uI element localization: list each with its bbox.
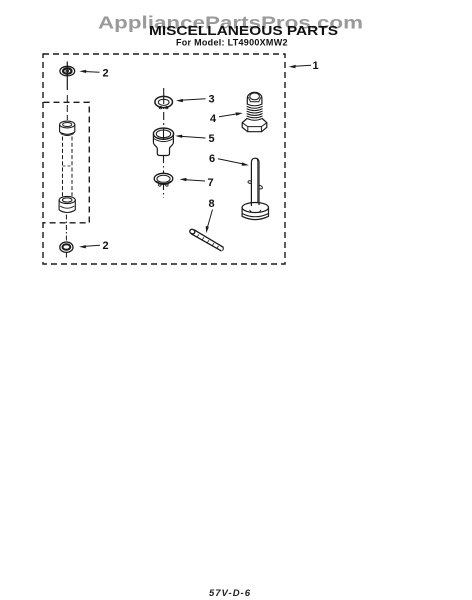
svg-text:3: 3 <box>208 93 214 105</box>
svg-text:5: 5 <box>208 133 214 145</box>
svg-text:7: 7 <box>207 177 213 189</box>
svg-text:6: 6 <box>209 153 215 165</box>
svg-text:For Model: LT4900XMW2: For Model: LT4900XMW2 <box>176 38 288 48</box>
svg-text:1: 1 <box>312 60 318 72</box>
svg-text:2: 2 <box>102 68 108 80</box>
svg-text:4: 4 <box>210 113 217 125</box>
svg-text:8: 8 <box>208 198 214 210</box>
svg-text:57V-D-6: 57V-D-6 <box>209 588 251 599</box>
svg-text:MISCELLANEOUS PARTS: MISCELLANEOUS PARTS <box>149 23 338 38</box>
svg-text:2: 2 <box>102 240 108 252</box>
